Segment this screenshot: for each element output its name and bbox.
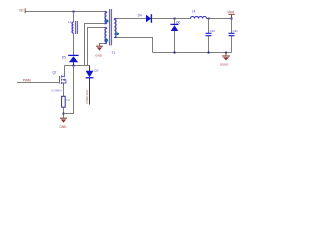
- wire aux bottom to GND: [100, 44, 105, 46]
- inductor L4: [191, 9, 207, 18]
- capacitor C10: [206, 19, 216, 53]
- T1 dot primary: [106, 20, 109, 23]
- wire Q2 source to R11: [63, 86, 65, 96]
- wire L4 to Vout node: [207, 18, 232, 20]
- transformer T1: [105, 9, 119, 55]
- diode D6: [171, 19, 181, 53]
- svg-text:Q2: Q2: [52, 71, 56, 75]
- wire secondary bottom lead: [117, 38, 153, 53]
- wire secondary top to D4: [117, 18, 147, 20]
- capacitor C11: [229, 19, 239, 53]
- wire L1 bottom to D5: [73, 33, 75, 55]
- wire switch node horizontal: [65, 65, 90, 67]
- T1 dot aux: [105, 39, 108, 42]
- node junction at L1 top: [73, 11, 75, 13]
- node junction Vout: [231, 18, 233, 20]
- node junction SGND: [225, 52, 227, 54]
- svg-text:C10: C10: [210, 29, 216, 33]
- wire ground rail: [153, 52, 232, 54]
- wire bypass down right of Q2: [64, 66, 74, 114]
- svg-text:PWM: PWM: [23, 79, 31, 83]
- wire T1 aux top lead: [88, 28, 105, 66]
- svg-text:VD: VD: [19, 8, 24, 12]
- node junction D6 bottom: [174, 52, 176, 54]
- ground GND aux: [95, 46, 103, 57]
- svg-text:GND: GND: [95, 53, 103, 57]
- wire T1 primary return: [85, 24, 105, 66]
- ground GND primary: [59, 118, 67, 129]
- T1 aux winding: [105, 28, 107, 44]
- svg-text:T1: T1: [111, 51, 115, 55]
- wire R11 bottom: [63, 107, 65, 118]
- resistor R11: [62, 96, 71, 107]
- wire D4 cathode to L4: [152, 18, 191, 20]
- wire L1 top lead: [73, 12, 75, 23]
- node junction C10 bottom: [208, 52, 210, 54]
- svg-text:C11: C11: [233, 29, 238, 33]
- diode D4: [138, 13, 152, 22]
- inductor L1: [68, 20, 78, 34]
- diode D5: [62, 55, 79, 65]
- wire VD top rail: [26, 11, 105, 13]
- svg-text:GND: GND: [59, 125, 67, 129]
- svg-text:SGND: SGND: [220, 62, 230, 66]
- diode D7: [86, 66, 99, 78]
- node junction C10 top: [208, 18, 210, 20]
- port VD: [19, 8, 26, 13]
- svg-text:SI 04B04: SI 04B04: [51, 88, 62, 92]
- svg-text:R11: R11: [66, 98, 71, 102]
- wire Q2 drain: [64, 66, 66, 76]
- wire PWM gate: [17, 82, 60, 84]
- wire D7 cathode net stub: [89, 78, 91, 104]
- svg-text:Vout: Vout: [227, 10, 234, 14]
- node junction R11 bottom: [63, 113, 65, 115]
- T1 secondary winding: [115, 19, 117, 38]
- T1 dot secondary: [116, 32, 119, 35]
- port Vout: [227, 10, 235, 18]
- svg-text:D7: D7: [94, 69, 98, 73]
- node junction D6 top: [174, 18, 176, 20]
- node junction switch: [73, 65, 75, 67]
- svg-text:PWM VCC: PWM VCC: [85, 90, 89, 104]
- svg-text:D5: D5: [62, 56, 66, 60]
- svg-text:L4: L4: [192, 9, 196, 13]
- T1 core: [109, 9, 112, 46]
- transistor Q2: [51, 71, 66, 93]
- ground SGND: [220, 53, 230, 67]
- svg-text:D4: D4: [138, 13, 142, 17]
- T1 primary winding: [105, 12, 107, 24]
